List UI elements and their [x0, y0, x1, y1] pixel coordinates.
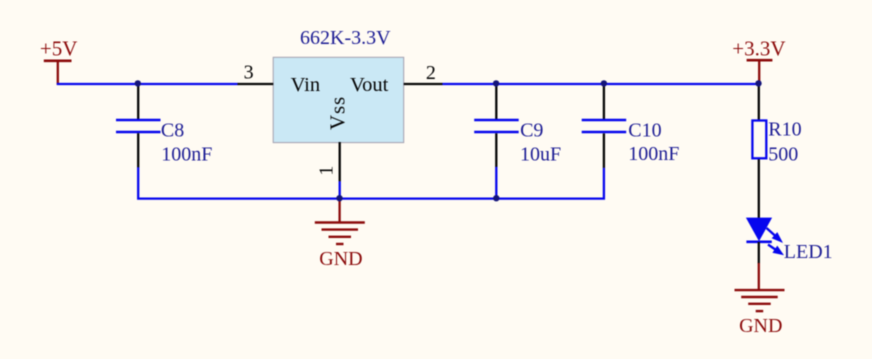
svg-text:+5V: +5V [40, 37, 78, 61]
svg-text:100nF: 100nF [161, 144, 212, 166]
svg-text:Vout: Vout [350, 74, 389, 96]
ground GND left [315, 199, 365, 270]
capacitor C9 [474, 84, 561, 199]
junction at pin1 bottom [336, 195, 342, 201]
wire bottom rail [138, 167, 604, 198]
wire rail to resistor [758, 84, 760, 120]
wire top-left rail [57, 83, 238, 85]
svg-text:GND: GND [739, 315, 782, 337]
svg-text:3: 3 [244, 62, 254, 84]
svg-text:100nF: 100nF [628, 143, 679, 165]
svg-text:662K-3.3V: 662K-3.3V [300, 27, 391, 49]
svg-text:10uF: 10uF [520, 144, 561, 166]
regulator U1 662K-3.3V [273, 27, 404, 143]
resistor R10 [752, 119, 801, 166]
junction at +3.3V [755, 80, 761, 86]
pin 2 [404, 62, 443, 84]
svg-text:+3.3V: +3.3V [732, 37, 785, 61]
wire resistor to LED [758, 159, 760, 218]
power +3.3V [732, 37, 785, 84]
wire LED to ground [758, 242, 760, 291]
junction at C8 top [135, 80, 141, 86]
svg-text:1: 1 [316, 166, 338, 176]
LED LED1 [746, 218, 833, 264]
pin 1 [316, 142, 340, 199]
capacitor C8 [116, 84, 212, 168]
power +5V [40, 37, 78, 85]
junction at C9 top [493, 80, 499, 86]
svg-text:C9: C9 [520, 120, 543, 142]
svg-text:Vin: Vin [291, 74, 321, 96]
capacitor C10 [582, 84, 680, 168]
svg-text:Vss: Vss [325, 96, 349, 130]
wire top-right rail [442, 83, 758, 85]
svg-text:R10: R10 [768, 119, 801, 141]
pin 3 [238, 62, 274, 84]
junction at C9 bottom [493, 195, 499, 201]
svg-text:GND: GND [319, 248, 362, 270]
ground GND right [735, 290, 785, 337]
svg-text:C8: C8 [161, 119, 184, 141]
svg-text:500: 500 [768, 143, 798, 165]
svg-text:LED1: LED1 [784, 241, 833, 263]
svg-text:2: 2 [426, 62, 436, 84]
svg-text:C10: C10 [628, 120, 661, 142]
junction at C10 top [601, 80, 607, 86]
